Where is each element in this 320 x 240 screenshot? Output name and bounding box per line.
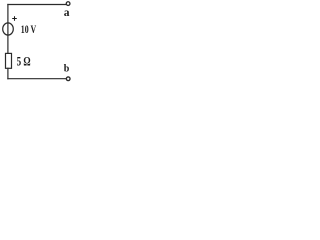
- voltage source V1 circle: [3, 23, 14, 35]
- svg-text:b: b: [64, 63, 70, 74]
- svg-text:5 Ω: 5 Ω: [17, 53, 31, 68]
- resistor R1 box 5 ohm: [6, 53, 12, 68]
- wire left vertical through source: [7, 5, 9, 54]
- wire bottom: [8, 78, 66, 80]
- wire top: [8, 4, 66, 6]
- svg-text:10 V: 10 V: [21, 24, 37, 36]
- polarity plus sign: [12, 16, 17, 21]
- wire resistor bottom to bottom rail: [7, 68, 9, 78]
- node b terminal circle: [66, 77, 70, 81]
- node a terminal circle: [66, 2, 70, 6]
- svg-text:a: a: [64, 7, 70, 19]
